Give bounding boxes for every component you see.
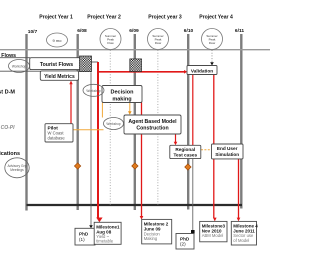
svg-text:10/7: 10/7 xyxy=(28,29,38,35)
svg-text:database: database xyxy=(48,135,66,140)
svg-text:6/11: 6/11 xyxy=(235,28,245,34)
box Regional Test cases xyxy=(170,145,201,158)
hatch box 1 xyxy=(80,56,92,72)
circle Summer Peak Flow 2 xyxy=(148,29,169,50)
square dot at PhD(2) top xyxy=(191,230,195,234)
box Milestone 4 xyxy=(231,221,256,245)
timeline bar 6/11 xyxy=(240,34,242,209)
timeline bar 10/7 xyxy=(25,34,27,211)
svg-text:Flow: Flow xyxy=(155,41,162,45)
red arrowhead into Milestone1 xyxy=(96,218,102,223)
box PhD (2) xyxy=(176,234,194,250)
box Validation xyxy=(187,66,217,75)
svg-text:of Model: of Model xyxy=(233,238,249,243)
svg-text:Validation: Validation xyxy=(191,68,213,73)
red line Validation right down to Milestone3 xyxy=(213,75,215,219)
oval 9 mo xyxy=(47,33,68,47)
svg-text:al Flows: al Flows xyxy=(0,53,16,59)
svg-text:Workshop: Workshop xyxy=(86,89,101,93)
svg-text:Project Year 2: Project Year 2 xyxy=(87,15,121,21)
orange arrow Decision down to ABM xyxy=(129,103,131,112)
diamond on 6/09 bar xyxy=(132,163,138,169)
dotted line from summer peak 2 xyxy=(157,50,159,205)
thin line from bottom rule to PhD(2) xyxy=(192,205,194,231)
orange line Decision down to Workshop3 xyxy=(101,103,103,118)
svg-text:Making: Making xyxy=(144,236,158,241)
red line Decision making down to Milestone 2 xyxy=(141,103,143,217)
svg-text:(2): (2) xyxy=(180,242,186,247)
svg-text:Simulation: Simulation xyxy=(215,152,239,157)
svg-text:Decision: Decision xyxy=(111,90,135,96)
dotted line from summer peak 1 xyxy=(109,50,111,205)
left connector line row Flows (top of Tourist box) xyxy=(0,57,30,59)
diamond on 6/08 bar xyxy=(74,163,80,169)
box Yield Metrics xyxy=(40,71,78,80)
dotted line from summer peak 3 to Validation xyxy=(211,50,213,63)
svg-text:9 mo: 9 mo xyxy=(53,38,63,43)
svg-text:End User: End User xyxy=(217,146,238,151)
svg-text:Regional: Regional xyxy=(175,147,195,152)
svg-text:Project Year 4: Project Year 4 xyxy=(199,15,233,21)
svg-text:Flow: Flow xyxy=(209,41,216,45)
svg-text:6/08: 6/08 xyxy=(77,28,87,34)
red horizontal line to Validation xyxy=(98,71,186,73)
svg-text:PhD: PhD xyxy=(180,236,190,241)
svg-text:Test cases: Test cases xyxy=(173,152,197,157)
box Pilot xyxy=(45,124,73,142)
svg-text:Tourist Flows: Tourist Flows xyxy=(40,62,73,68)
svg-text:making: making xyxy=(112,96,131,102)
hatch box 2 xyxy=(130,59,142,72)
circle Summer Peak Flow 1 xyxy=(100,29,121,50)
svg-text:timetable: timetable xyxy=(96,239,114,244)
circle Summer Peak Flow 3 xyxy=(202,29,223,50)
box Milestone1 xyxy=(94,222,121,244)
box PhD (1) xyxy=(75,228,95,245)
red main vertical line xyxy=(97,62,99,219)
oval Advisory Grp Meetings xyxy=(5,158,29,178)
svg-text:Project year 3: Project year 3 xyxy=(148,15,182,21)
red arrow Pilot up to Yield Metrics xyxy=(70,84,72,124)
thin line hatch1 down to PhD(1) xyxy=(90,72,92,225)
arrowhead into PhD(1) xyxy=(89,225,93,228)
oval Workshop 1 xyxy=(9,60,30,73)
svg-text:Workshop: Workshop xyxy=(12,65,27,69)
svg-text:PhD: PhD xyxy=(79,232,89,237)
svg-text:Agent Based Model: Agent Based Model xyxy=(128,119,177,125)
box Milestone 2 xyxy=(142,219,172,244)
svg-text:Project Year 1: Project Year 1 xyxy=(39,15,73,21)
timeline bar 6/09 xyxy=(134,34,136,210)
red arrow ABM down to Regional Test cases xyxy=(175,134,177,142)
red arrowhead into Validation left xyxy=(184,70,187,74)
svg-text:(1): (1) xyxy=(79,237,85,242)
bottom rule xyxy=(27,204,243,206)
svg-text:CO-PI: CO-PI xyxy=(1,125,16,131)
timeline bar 6/10 xyxy=(187,34,189,210)
box Decision making xyxy=(102,86,142,103)
arrowhead into Validation top xyxy=(210,62,214,65)
svg-text:6/09: 6/09 xyxy=(129,28,139,34)
box Tourist Flows xyxy=(30,58,81,70)
top rule xyxy=(0,49,270,51)
orange line Pilot to Workshop3 xyxy=(73,129,104,131)
svg-text:Flow: Flow xyxy=(107,41,114,45)
svg-text:Yield Metrics: Yield Metrics xyxy=(44,74,75,80)
svg-text:Workshop: Workshop xyxy=(106,122,121,126)
oval Workshop 2 xyxy=(83,84,104,96)
red line Validation left down xyxy=(192,75,194,159)
red line End User down to Milestone 4 xyxy=(238,159,240,218)
svg-text:Construction: Construction xyxy=(136,126,168,132)
timeline bar 6/08 xyxy=(76,34,78,210)
svg-text:st D-M: st D-M xyxy=(0,89,15,95)
box End User Simulation xyxy=(212,144,244,159)
svg-text:ABM Model: ABM Model xyxy=(202,233,224,238)
diamond on 6/10 bar xyxy=(185,164,191,170)
svg-text:Meetings: Meetings xyxy=(10,168,24,172)
oval Workshop 3 xyxy=(104,118,124,130)
box Agent Based Model Construction xyxy=(124,115,181,134)
box Milestone3 xyxy=(200,221,227,241)
left connector line row 2 (top of Yield box) xyxy=(0,70,41,72)
gray connector hatch1 to red line xyxy=(91,61,98,63)
orange dashed line Regional to End User xyxy=(201,149,211,151)
svg-text:blications: blications xyxy=(0,151,20,157)
svg-text:6/10: 6/10 xyxy=(184,28,194,34)
